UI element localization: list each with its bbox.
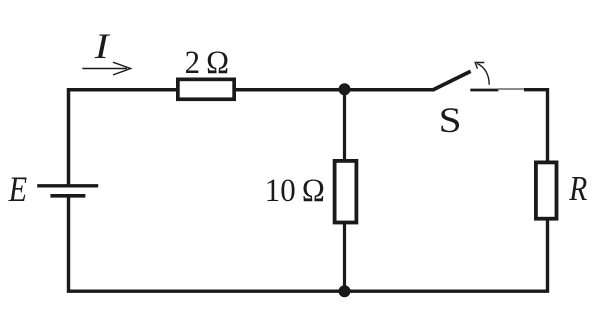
node B (bottom junction) — [339, 285, 351, 297]
current arrow I — [82, 62, 130, 75]
resistor R1 2ohm — [178, 79, 234, 99]
wire: right branch top (switch to top-right corner down to resistor R) — [524, 90, 548, 161]
resistor R — [536, 162, 557, 218]
svg-text:I: I — [93, 26, 111, 66]
node A (top junction) — [339, 83, 351, 95]
svg-text:10 Ω: 10 Ω — [265, 173, 325, 209]
wire: top middle segment (resistor 2ohm to switch) — [236, 88, 433, 92]
battery E — [37, 186, 98, 196]
svg-text:S: S — [439, 100, 462, 140]
svg-text:2 Ω: 2 Ω — [185, 45, 230, 81]
wire: left branch top (battery + to top-left corner to resistor 2ohm) — [69, 90, 177, 186]
wire: middle branch lower — [343, 223, 346, 292]
switch rotation arrow — [475, 63, 489, 85]
svg-text:E: E — [8, 169, 27, 209]
switch S blade — [432, 71, 470, 90]
switch S fixed contact — [470, 89, 525, 90]
wire: middle branch upper — [343, 89, 346, 160]
resistor R2 10ohm — [335, 161, 357, 223]
svg-text:R: R — [568, 170, 587, 208]
wire: battery - down, bottom rail, up right branch to resistor R bottom — [69, 196, 548, 291]
